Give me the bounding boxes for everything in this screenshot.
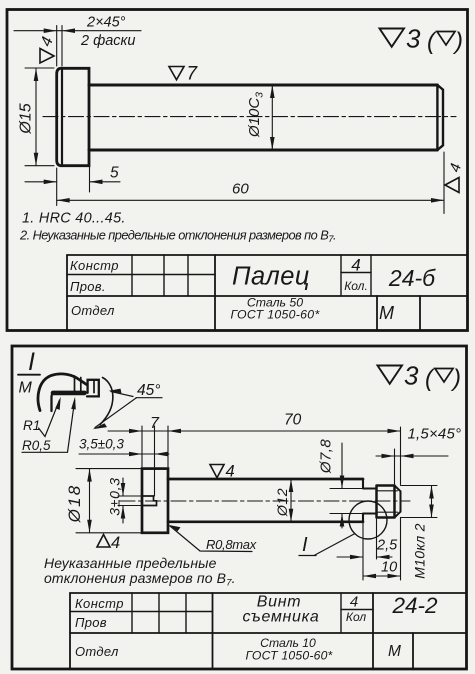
dimension 5 line and arrows: [25, 181, 120, 183]
svg-text:2,5: 2,5: [376, 538, 398, 554]
dimension Ø15 line: [35, 68, 37, 166]
centerline sheet 1: [43, 116, 456, 118]
svg-text:М: М: [388, 643, 401, 660]
svg-text:1,5×45°: 1,5×45°: [408, 426, 462, 443]
dimension Ø7,8 extension lines: [330, 489, 363, 514]
svg-text:45°: 45°: [137, 382, 160, 399]
thread minor diameter lines: [377, 491, 398, 512]
dimension 3±0,3 extension lines: [118, 496, 142, 506]
svg-text:Пров: Пров: [75, 615, 107, 630]
svg-text:24-2: 24-2: [391, 593, 438, 618]
svg-text:Ø12: Ø12: [275, 488, 291, 517]
dimension M10 line: [431, 486, 433, 518]
svg-text:3,5±0,3: 3,5±0,3: [79, 437, 124, 452]
thread section: [377, 486, 395, 518]
dimension 1,5x45 line: [376, 455, 448, 457]
dimension Ø12 line: [290, 479, 292, 522]
svg-text:R0,5: R0,5: [22, 438, 51, 453]
detail view groove bottom thick line: [53, 391, 85, 396]
dimension 2x45 line: [14, 30, 141, 32]
svg-text:Ø7,8: Ø7,8: [318, 439, 335, 474]
sheet 1 border frame: [7, 10, 468, 331]
svg-text:10: 10: [381, 560, 397, 576]
svg-text:Отдел: Отдел: [75, 644, 119, 659]
finish mark ∆4 at right chamfer: [445, 178, 459, 193]
svg-text:R1: R1: [23, 418, 40, 433]
dimension 7 and 70 extension lines: [142, 426, 401, 496]
svg-text:R0,8max: R0,8max: [206, 537, 257, 552]
finish mark ∇7 on shaft: [169, 67, 184, 80]
svg-text:4: 4: [111, 534, 120, 552]
roughness note ∇3 (∇) sheet 1: [380, 29, 405, 47]
detail circle I: [349, 501, 387, 539]
dimension Ø18 line: [89, 469, 91, 533]
svg-text:Неуказанные предельные: Неуказанные предельные: [44, 555, 217, 571]
svg-text:Кол.: Кол.: [344, 279, 368, 293]
pin head chamfer line: [61, 68, 63, 165]
svg-text:3±0,3: 3±0,3: [107, 477, 123, 515]
dimension 2x45 extension lines: [57, 26, 62, 67]
detail view right hook: [87, 380, 99, 397]
finish mark ∆4 below head: [97, 535, 110, 548]
svg-text:7: 7: [150, 415, 160, 432]
svg-text:Ø10C3: Ø10C3: [246, 92, 266, 138]
svg-text:4: 4: [350, 594, 358, 611]
svg-text:ГОСТ 1050-60*: ГОСТ 1050-60*: [245, 649, 333, 663]
finish mark ∆4 at head left face: [40, 49, 54, 64]
detail view inner leg: [52, 393, 55, 411]
svg-text:I: I: [28, 348, 35, 376]
svg-text:I: I: [302, 534, 308, 556]
dimension 10 line: [363, 575, 401, 577]
screw shaft outline: [168, 479, 363, 522]
svg-text:Отдел: Отдел: [71, 303, 115, 318]
svg-text:Кол: Кол: [346, 610, 366, 624]
svg-text:70: 70: [284, 412, 302, 429]
svg-text:3: 3: [406, 24, 421, 54]
svg-text:Пров.: Пров.: [70, 279, 106, 294]
svg-text:ГОСТ 1050-60*: ГОСТ 1050-60*: [230, 308, 320, 322]
svg-text:Констр: Констр: [75, 596, 124, 611]
svg-text:2 фаски: 2 фаски: [80, 33, 135, 49]
svg-text:24-б: 24-б: [388, 265, 436, 291]
dimension 2,5 extension lines: [363, 519, 377, 580]
pin head outline: [57, 68, 89, 165]
dimension 2,5 line: [337, 556, 392, 558]
dimension 3±0,3 line: [122, 478, 124, 523]
dimension 2x45 arrows: [44, 28, 75, 33]
pin shaft right end chamfer: [437, 85, 443, 150]
svg-text:4: 4: [351, 256, 360, 275]
dimension M10 extension lines: [401, 486, 438, 518]
title block sheet 2 lines: [70, 593, 467, 633]
dimension 5 extension line: [89, 152, 91, 192]
sheet 2 border frame: [12, 346, 467, 669]
dimension 3,5±0,3 line: [79, 453, 169, 455]
svg-text:Ø15: Ø15: [18, 103, 35, 134]
svg-text:4: 4: [226, 463, 235, 481]
detail view chamfer ticks: [75, 376, 81, 393]
dimension 60 line: [57, 199, 444, 201]
dimension Ø15 extension lines: [25, 68, 54, 166]
svg-text:съемника: съемника: [242, 609, 319, 626]
svg-text:Ø18: Ø18: [65, 484, 84, 524]
title block sheet 1 lines: [67, 255, 468, 296]
svg-text:отклонения размеров по В7.: отклонения размеров по В7.: [44, 570, 236, 589]
detail view boundary arc: [100, 378, 113, 425]
groove at thread: [363, 479, 377, 522]
svg-text:3: 3: [404, 361, 419, 391]
centerline sheet 2: [120, 500, 410, 502]
dimension Ø15 arrows: [34, 68, 39, 166]
svg-text:60: 60: [232, 181, 249, 198]
dimension 10 extension line: [400, 518, 402, 581]
svg-text:5: 5: [110, 165, 119, 182]
dimension Ø18 extension lines: [76, 469, 142, 533]
svg-text:М: М: [379, 303, 394, 323]
svg-text:1. HRC 40...45.: 1. HRC 40...45.: [22, 211, 126, 227]
svg-text:М: М: [19, 380, 33, 397]
svg-text:2×45°: 2×45°: [86, 15, 126, 31]
svg-text:Констр: Констр: [70, 258, 119, 273]
screw head outline: [142, 469, 168, 533]
dimension 60 extension lines: [57, 152, 444, 214]
dimension Ø10C3 line: [271, 85, 273, 150]
svg-text:2. Неуказанные предельные откл: 2. Неуказанные предельные отклонения раз…: [19, 228, 336, 246]
dimension 7/70 line: [108, 430, 401, 432]
svg-text:М10кл 2: М10кл 2: [412, 523, 428, 579]
finish mark ∇4 on shaft: [210, 465, 224, 478]
detail view groove profile outer arc: [38, 374, 86, 411]
roughness note ∇3 (∇) sheet 2: [378, 366, 403, 384]
pin shaft outline: [89, 85, 437, 150]
svg-text:Палец: Палец: [232, 263, 310, 291]
dimension Ø7,8 line: [341, 443, 343, 528]
screw hole in head: [142, 496, 157, 506]
svg-text:7: 7: [187, 64, 199, 85]
